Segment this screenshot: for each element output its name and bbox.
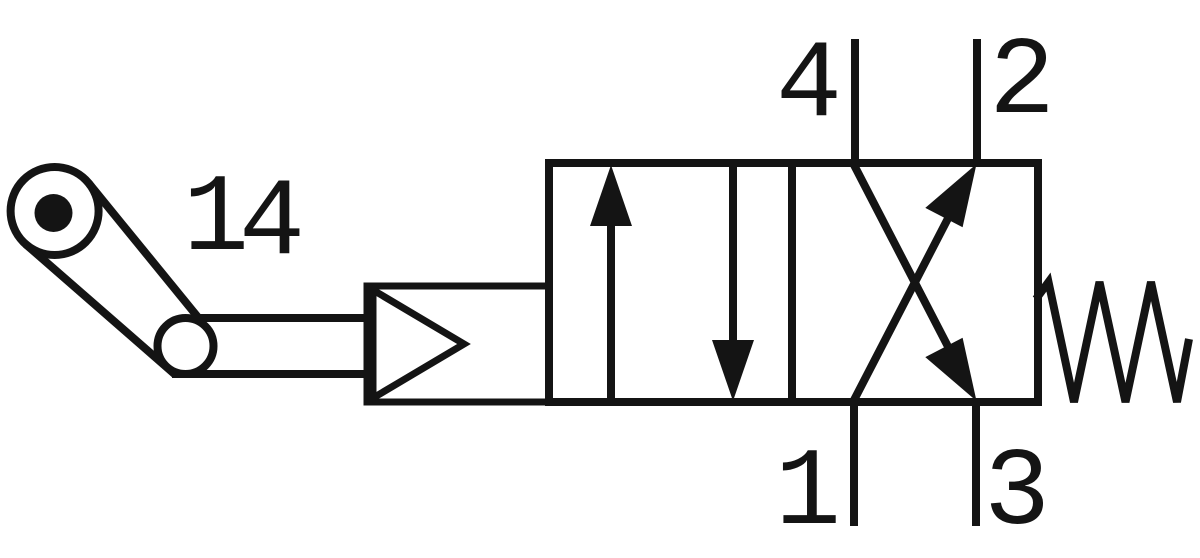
crossed flow line 4-to-3 arrow head	[925, 338, 976, 401]
pivot circle	[158, 318, 214, 374]
crossed flow line 1-to-2 arrow head	[925, 164, 976, 227]
valve body outline	[549, 163, 1038, 402]
port 3 line	[972, 398, 980, 526]
lever arm lower line	[26, 244, 175, 374]
left position down-arrow head	[712, 340, 754, 401]
port 4 line	[851, 39, 859, 167]
roller axle dot	[35, 194, 73, 232]
position divider	[788, 163, 796, 402]
pilot actuator box	[367, 286, 549, 402]
left position up-arrow head	[590, 165, 632, 226]
svg-text:4: 4	[239, 162, 305, 287]
left position up-arrow shaft	[607, 222, 615, 402]
roller R (lever roller circle)	[11, 167, 99, 255]
svg-text:3: 3	[984, 432, 1050, 557]
port 1 line	[850, 398, 858, 526]
crossed flow line 4-to-3 shaft	[853, 163, 957, 364]
left position down-arrow shaft	[729, 163, 737, 344]
port 2 line	[973, 39, 981, 167]
crossed flow line 1-to-2 shaft	[853, 201, 957, 402]
lever arm upper line	[89, 183, 199, 318]
lever link top wire	[195, 314, 368, 322]
svg-text:4: 4	[776, 24, 842, 149]
svg-text:1: 1	[775, 432, 841, 557]
lever link bottom wire	[172, 370, 368, 378]
pilot triangle	[373, 290, 464, 398]
return spring	[1036, 282, 1189, 402]
svg-text:2: 2	[989, 21, 1055, 146]
